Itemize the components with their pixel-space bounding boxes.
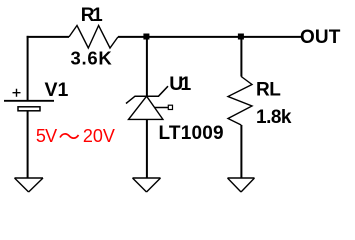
U1 adjust pin: [155, 107, 169, 109]
zener U1 triangle: [129, 96, 163, 119]
svg-text:U1: U1: [169, 73, 191, 95]
svg-text:RL: RL: [256, 79, 281, 100]
wire U1 to ground: [146, 119, 148, 178]
battery V1 plus sign: [13, 89, 21, 97]
svg-text:5V: 5V: [36, 126, 57, 146]
resistor R1: [69, 26, 118, 49]
svg-text:LT1009: LT1009: [159, 123, 224, 144]
svg-text:1.8k: 1.8k: [256, 107, 292, 128]
node B junction dot: [238, 34, 244, 40]
wire battery to ground: [27, 112, 29, 179]
svg-text:20V: 20V: [83, 126, 115, 146]
wire node B to RL: [240, 37, 242, 77]
U1 adjust pin square: [168, 105, 172, 109]
svg-text:3.6K: 3.6K: [71, 48, 113, 69]
node A junction dot: [143, 34, 149, 40]
red wave tilde: [60, 134, 79, 138]
zener U1 cathode bar: [126, 86, 168, 103]
wire RL to ground: [240, 125, 242, 178]
wire node A to U1: [146, 37, 148, 97]
battery V1 top plate: [4, 100, 54, 102]
ground G3: [228, 178, 255, 192]
svg-text:OUT: OUT: [300, 27, 341, 48]
wire top rail: [27, 36, 69, 38]
svg-text:V1: V1: [45, 79, 69, 101]
wire left vertical to battery: [27, 36, 29, 101]
svg-text:R1: R1: [81, 5, 103, 26]
wire R1 right to OUT: [118, 36, 302, 38]
resistor RL: [228, 77, 252, 126]
battery V1 bottom plate: [18, 107, 40, 111]
ground G2: [133, 178, 161, 192]
ground G1: [15, 178, 44, 192]
